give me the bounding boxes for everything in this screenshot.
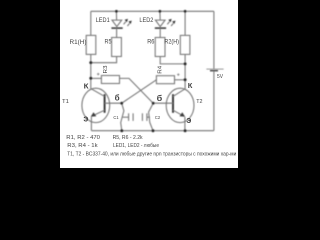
svg-text:К: К [84,81,89,90]
svg-text:R2(H): R2(H) [164,39,179,46]
svg-text:С1: С1 [113,115,118,121]
plus mark near R4 [177,73,180,76]
svg-text:б: б [157,93,163,103]
svg-text:5V: 5V [217,74,223,80]
wire LED2 cathode to R6 [159,28,161,37]
svg-text:LED1, LED2 - любые: LED1, LED2 - любые [113,143,159,149]
svg-text:R5, R6 - 2.2k: R5, R6 - 2.2k [113,135,143,141]
svg-text:б: б [115,93,120,103]
plus mark near R3 [97,73,100,76]
svg-text:T2: T2 [196,99,202,105]
svg-text:T1: T1 [62,99,69,105]
wire R2 column top [184,11,186,35]
svg-text:С2: С2 [155,115,160,121]
wire R4 to T1 base (crossing) [122,80,157,103]
wire R1 bottom to T1 collector [90,54,92,88]
resistor R5 [112,38,122,57]
wire LED1 anode [115,11,117,20]
wire LED2 anode [159,11,161,20]
transistor T2 [153,88,194,131]
svg-text:R1, R2 - 470: R1, R2 - 470 [66,135,100,141]
wire bottom rail [91,130,213,132]
battery 5V [206,11,223,130]
resistor R2 [180,35,190,54]
svg-text:э: э [83,114,88,124]
LED1 [111,19,131,28]
svg-text:R3: R3 [103,66,109,74]
resistor R6 [155,38,165,57]
resistor R4 [156,76,174,84]
resistor R1 [86,35,96,54]
wire node to R3 [91,77,102,79]
svg-text:T1, T2 - BC337-40, или любые д: T1, T2 - BC337-40, или любые другие npn … [67,151,236,157]
wire R2 bottom to T2 collector [184,54,186,88]
wire LED1 cathode to R5 [116,28,118,37]
junction dots [89,10,186,132]
resistor R3 [101,76,119,84]
wire R3 to T2 base (crossing) [120,78,154,103]
wire R4 to node [175,79,186,81]
svg-text:э: э [186,115,191,125]
capacitor C2 [142,113,150,121]
svg-text:R6: R6 [147,38,155,45]
svg-text:R5: R5 [105,38,112,45]
transistor T1 [82,88,122,131]
svg-text:R1(H): R1(H) [70,39,87,46]
svg-text:LED1: LED1 [96,18,111,24]
svg-text:R3, R4 - 1k: R3, R4 - 1k [67,143,98,149]
capacitor C1 [123,113,134,121]
wire R5 bottom to T1 collector node [91,57,117,63]
wire top rail [91,10,214,12]
svg-text:К: К [188,81,193,90]
wire T1 base to bottom rail [121,103,124,131]
wire T2 base to bottom rail [149,103,154,131]
wire R1 column top [90,11,92,35]
LED2 [155,19,176,28]
svg-text:R4: R4 [157,66,163,74]
svg-text:LED2: LED2 [139,18,154,24]
wire R6 bottom to T2 collector node [160,57,185,64]
